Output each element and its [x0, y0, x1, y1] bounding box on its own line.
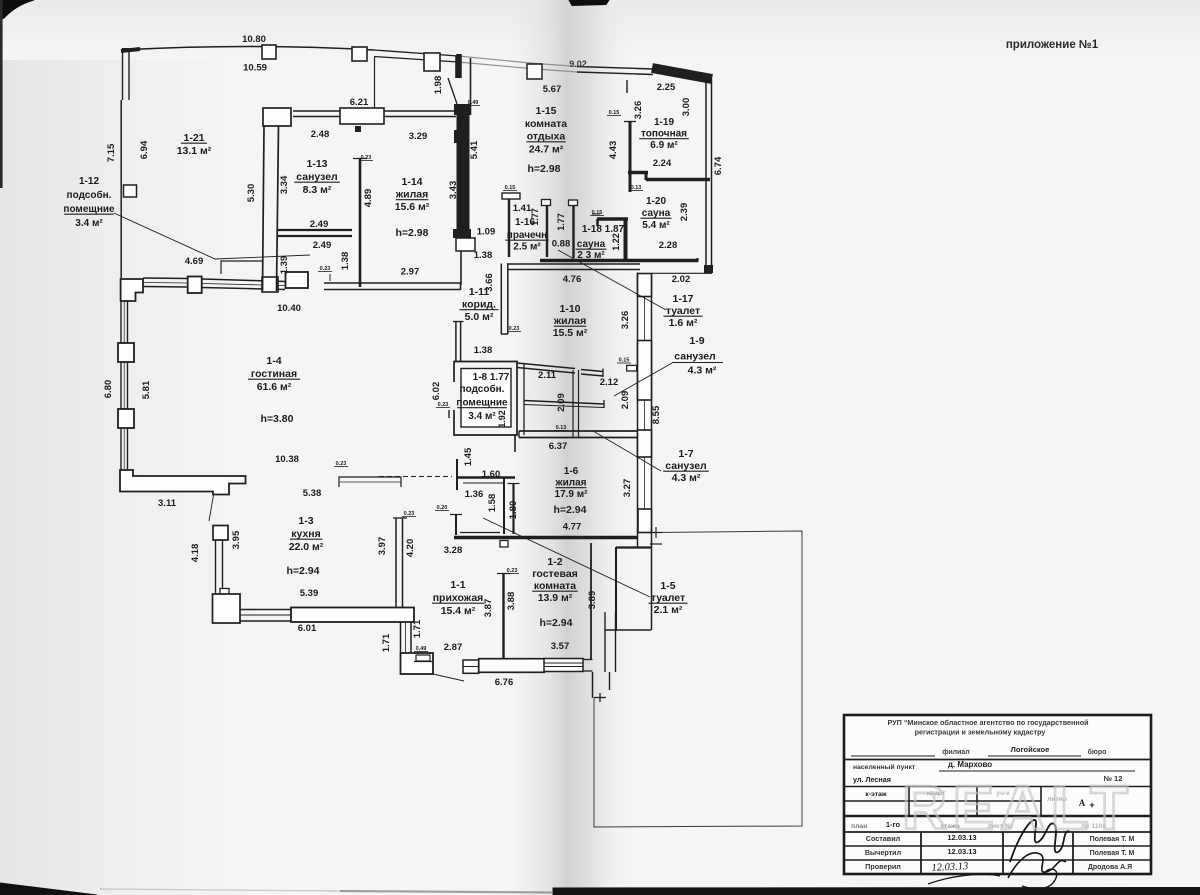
step corner down	[697, 258, 699, 262]
svg-text:3.4 м²: 3.4 м²	[75, 218, 103, 229]
outer wall: north (top-left, curved)	[121, 49, 140, 51]
svg-text:1-12: 1-12	[79, 176, 99, 187]
wall: 1-20/1-18 divider region ticks	[592, 213, 600, 215]
svg-text:2.87: 2.87	[444, 642, 463, 653]
svg-text:филиал: филиал	[942, 749, 970, 756]
svg-text:отдыха: отдыха	[527, 131, 566, 143]
wall: 1-5 west protrusion	[615, 547, 617, 630]
window E3	[638, 430, 652, 457]
wall 6.37 double	[519, 430, 637, 432]
svg-text:10.40: 10.40	[277, 303, 301, 314]
svg-text:туалет: туалет	[651, 592, 685, 604]
svg-text:1.6 м²: 1.6 м²	[669, 317, 698, 329]
wall 4.76 (top of 1-10) double	[507, 263, 640, 265]
svg-text:10.38: 10.38	[275, 454, 299, 465]
svg-text:план: план	[851, 823, 867, 830]
svg-text:4.76: 4.76	[563, 274, 582, 285]
wall: 1-19 south step	[628, 171, 648, 174]
svg-text:9.02: 9.02	[569, 59, 587, 69]
svg-text:1.92: 1.92	[497, 410, 507, 428]
wall: 1-19 west	[629, 121, 632, 192]
wall: 1-5 north	[616, 546, 651, 548]
svg-text:6.21: 6.21	[350, 97, 369, 108]
stamp rule 5	[844, 845, 1151, 847]
outer east wall lower double with windows	[638, 272, 652, 533]
svg-text:санузел: санузел	[674, 351, 715, 363]
svg-text:1.60: 1.60	[482, 469, 501, 480]
NW corner block of 1-4	[121, 279, 143, 301]
svg-text:13.9 м²: 13.9 м²	[538, 592, 573, 604]
svg-text:5.39: 5.39	[300, 588, 319, 599]
ledge wall 3.11 outline	[120, 470, 246, 495]
leader 1-12	[114, 213, 310, 259]
svg-text:1-9: 1-9	[689, 335, 704, 347]
window W2 on north wall	[352, 47, 367, 61]
book fold shadow band	[508, 0, 638, 895]
window W3 on north band	[527, 64, 542, 79]
svg-text:7.15: 7.15	[106, 143, 117, 162]
svg-text:1.45: 1.45	[463, 447, 474, 466]
svg-text:бюро: бюро	[1088, 748, 1107, 756]
porch block 1-1	[401, 653, 434, 674]
stub below 1-8	[514, 435, 516, 452]
svg-text:5.0 м²: 5.0 м²	[465, 311, 494, 323]
svg-text:4.43: 4.43	[608, 141, 619, 160]
white box 1-14 SE	[456, 238, 475, 251]
svg-text:2.48: 2.48	[311, 129, 330, 140]
window W5 north 1-4	[286, 272, 309, 288]
svg-text:1-18 1.87: 1-18 1.87	[582, 224, 625, 235]
leader 1-7	[593, 431, 661, 471]
svg-text:2.11: 2.11	[538, 370, 557, 381]
svg-text:0.88: 0.88	[552, 239, 571, 250]
svg-text:1-1: 1-1	[450, 579, 465, 591]
door leaf 1.98	[448, 78, 457, 104]
svg-text:13.1 м²: 13.1 м²	[177, 145, 212, 157]
stamp sig columns	[920, 832, 922, 874]
svg-text:8.3 м²: 8.3 м²	[303, 184, 332, 196]
block under door	[454, 104, 471, 115]
wall: 1-18 east	[624, 219, 628, 259]
svg-text:3.29: 3.29	[409, 131, 428, 142]
svg-text:12.03.13: 12.03.13	[931, 861, 968, 874]
svg-text:1.58: 1.58	[487, 494, 498, 513]
svg-text:1.80: 1.80	[508, 501, 519, 520]
svg-text:17.9 м²: 17.9 м²	[555, 489, 589, 500]
svg-text:REALT: REALT	[902, 774, 1134, 843]
wall 1.58	[503, 478, 505, 534]
svg-text:6.80: 6.80	[103, 380, 114, 399]
cap 0.23 1-8	[448, 410, 450, 418]
svg-text:2.49: 2.49	[313, 240, 332, 251]
svg-text:5.67: 5.67	[543, 84, 562, 95]
svg-text:1.38: 1.38	[474, 250, 493, 261]
svg-text:3.87: 3.87	[483, 599, 494, 618]
leader 1-5	[483, 518, 650, 597]
svg-text:1-6: 1-6	[564, 466, 579, 477]
window west kitchen 1	[213, 526, 228, 541]
svg-text:гостевая: гостевая	[532, 568, 578, 580]
svg-text:подсобн.: подсобн.	[67, 189, 112, 201]
svg-text:к-этаж: к-этаж	[865, 791, 886, 798]
svg-text:4.3 м²: 4.3 м²	[672, 472, 701, 484]
wall: 1-6 west upper (1.45)	[456, 459, 458, 490]
svg-text:5.38: 5.38	[303, 488, 322, 499]
tick on top band	[626, 80, 628, 93]
svg-text:комната: комната	[525, 118, 567, 130]
tick terrace top	[650, 532, 662, 534]
svg-text:3.97: 3.97	[377, 537, 388, 556]
svg-text:1.39: 1.39	[279, 256, 290, 275]
svg-text:населенный пункт: населенный пункт	[853, 763, 916, 771]
svg-text:1.09: 1.09	[477, 227, 496, 238]
window W7 west 1-4	[118, 343, 134, 362]
svg-text:4.77: 4.77	[563, 522, 582, 533]
svg-text:1.38: 1.38	[340, 252, 351, 271]
svg-text:6.01: 6.01	[298, 623, 317, 634]
svg-text:помещние: помещние	[63, 204, 115, 215]
band left edge line	[374, 57, 376, 110]
long wall under 1-13 (2.97) outlined	[324, 282, 460, 284]
svg-text:1-11: 1-11	[469, 286, 490, 298]
stamp rule 1	[844, 759, 1151, 761]
wall: 1-14 east lower thin	[460, 251, 462, 285]
svg-text:Логойское: Логойское	[1011, 745, 1050, 754]
svg-text:сауна: сауна	[577, 239, 606, 250]
svg-text:2.09: 2.09	[556, 393, 567, 412]
stamp rule 6	[844, 859, 1151, 861]
wall: 1-14 east channel top	[455, 56, 457, 78]
svg-text:12.03.13: 12.03.13	[947, 847, 976, 856]
fold-side double wall	[572, 370, 574, 438]
svg-text:15.6 м²: 15.6 м²	[395, 201, 430, 213]
block 1-14 SE	[453, 229, 471, 238]
svg-text:1-8 1.77: 1-8 1.77	[473, 372, 510, 383]
dashed line kitchen	[379, 476, 452, 478]
svg-text:5.41: 5.41	[469, 140, 480, 159]
svg-text:подсобн.: подсобн.	[460, 383, 505, 395]
room 1-8 outer wall outline	[454, 362, 517, 436]
svg-text:1-4: 1-4	[266, 355, 281, 367]
SE double wall down	[604, 612, 606, 672]
svg-text:ул. Лесная: ул. Лесная	[853, 775, 891, 784]
junction box top of 1-13 west wall	[263, 108, 291, 126]
walls down to terrace	[592, 672, 594, 698]
window E1	[638, 274, 652, 297]
svg-text:кухня: кухня	[291, 528, 321, 540]
svg-text:h=2.98: h=2.98	[528, 163, 561, 175]
wall east of 1-8	[523, 364, 525, 435]
window E4	[638, 509, 652, 533]
leader 1-17	[558, 250, 666, 310]
svg-text:3.34: 3.34	[279, 175, 290, 194]
wall: prачечн west (1-16)	[508, 199, 511, 257]
svg-text:2.28: 2.28	[659, 240, 678, 251]
svg-text:10.59: 10.59	[243, 63, 267, 74]
svg-text:5.81: 5.81	[141, 380, 152, 399]
svg-text:приложение №1: приложение №1	[1006, 39, 1099, 51]
porch outline 4.69	[221, 261, 262, 274]
svg-text:2.25: 2.25	[657, 82, 676, 93]
svg-text:8.55: 8.55	[651, 405, 662, 424]
svg-text:3.57: 3.57	[551, 641, 570, 652]
svg-text:жилая: жилая	[555, 478, 587, 489]
svg-text:туалет: туалет	[666, 305, 700, 317]
svg-text:прачечн: прачечн	[507, 230, 547, 241]
svg-text:д. Мархово: д. Мархово	[948, 760, 992, 769]
wall: 1-13/1-14 divider	[359, 158, 362, 287]
svg-text:1.71: 1.71	[381, 633, 392, 652]
west wall of 1-4 with windows	[120, 301, 122, 344]
window band south kitchen	[240, 609, 291, 611]
wall: 1-10 south double	[517, 363, 575, 369]
svg-text:3.43: 3.43	[448, 181, 459, 200]
svg-text:гостиная: гостиная	[251, 368, 297, 380]
leader 1-9	[614, 363, 672, 396]
wall: 1-13/1-14 north double	[293, 110, 340, 112]
wall: 1-13 south double	[277, 229, 352, 231]
svg-text:1-7: 1-7	[678, 448, 693, 460]
wall: 1-2 east (3.89)	[590, 543, 592, 659]
svg-text:1-19: 1-19	[654, 117, 674, 128]
top-left black corner	[0, 0, 34, 20]
svg-text:h=2.98: h=2.98	[396, 227, 429, 239]
wall: 1-5 east	[651, 528, 653, 630]
signature scrawl	[1010, 820, 1070, 862]
svg-text:5.4 м²: 5.4 м²	[642, 220, 670, 231]
ledge line 2.02	[652, 272, 712, 274]
wall stub 0.20	[455, 514, 457, 535]
svg-text:топочная: топочная	[641, 129, 687, 140]
svg-text:3.4 м²: 3.4 м²	[468, 411, 496, 422]
svg-text:61.6 м²: 61.6 м²	[257, 381, 292, 393]
wall: 1-18 north	[597, 217, 628, 221]
svg-text:h=2.94: h=2.94	[287, 565, 320, 577]
stamp cells row	[908, 787, 910, 817]
wall: 1-14 east black	[457, 115, 470, 230]
stamp filial row	[851, 755, 935, 757]
svg-text:1-14: 1-14	[401, 176, 422, 188]
svg-text:h=2.94: h=2.94	[540, 617, 573, 629]
west wall of kitchen	[215, 540, 217, 594]
svg-text:1-2: 1-2	[547, 556, 562, 568]
window W2b on north band	[424, 53, 440, 71]
svg-text:4.89: 4.89	[363, 189, 374, 208]
svg-text:1-15: 1-15	[535, 105, 556, 117]
svg-text:санузел: санузел	[665, 460, 706, 472]
svg-text:5.30: 5.30	[246, 184, 257, 203]
wall: 1-14/1-15 divider top bar	[456, 54, 462, 78]
svg-text:1-3: 1-3	[298, 515, 313, 527]
room 1-8 inner wall outline	[461, 369, 511, 428]
SW corner kitchen white block	[220, 589, 229, 595]
wall: partition 1.77 b / 1-18 west	[572, 206, 574, 258]
porch column 1.71	[400, 622, 402, 652]
stamp rule 2	[844, 786, 1151, 788]
svg-text:регистрации и земельному кадас: регистрации и земельному кадастру	[915, 728, 1046, 737]
wall: 1-5 south	[605, 629, 651, 631]
south wall outlined bar	[479, 659, 545, 673]
window W8 west 1-4	[118, 409, 134, 428]
svg-text:прихожая: прихожая	[433, 592, 484, 604]
top-center black blob	[569, 0, 609, 6]
svg-text:сауна: сауна	[642, 208, 671, 219]
window S2 channel	[544, 659, 583, 672]
svg-text:6.94: 6.94	[139, 140, 150, 159]
svg-text:4.69: 4.69	[185, 256, 204, 267]
svg-text:1.98: 1.98	[433, 76, 444, 95]
svg-text:6.74: 6.74	[713, 156, 724, 175]
svg-text:2.02: 2.02	[672, 274, 691, 285]
svg-text:2.5 м²: 2.5 м²	[513, 242, 541, 253]
sauna block south wall	[540, 259, 698, 263]
stamp table box	[844, 715, 1151, 889]
svg-text:комната: комната	[534, 580, 576, 592]
outer wall: west upper (1-21)	[122, 49, 124, 100]
svg-text:1-17: 1-17	[672, 293, 693, 305]
closet partition 2.11/2.12	[524, 401, 604, 405]
svg-text:Составил: Составил	[866, 834, 901, 843]
svg-text:1-5: 1-5	[660, 580, 675, 592]
radiator stub east	[627, 365, 637, 371]
svg-text:помещние: помещние	[456, 398, 508, 409]
svg-text:РУП “Минское областное агентст: РУП “Минское областное агентство по госу…	[887, 718, 1088, 727]
svg-text:1.36: 1.36	[465, 489, 484, 500]
svg-text:Проверил: Проверил	[865, 862, 901, 871]
svg-text:10.80: 10.80	[242, 34, 266, 45]
svg-text:6.02: 6.02	[431, 382, 442, 401]
window W4 north 1-4	[188, 277, 202, 294]
cap white 1-16	[502, 193, 520, 199]
north wall of 1-4 window band	[143, 277, 188, 280]
svg-text:3.89: 3.89	[587, 591, 598, 610]
svg-text:корид.: корид.	[462, 299, 496, 311]
svg-text:6.76: 6.76	[495, 677, 514, 688]
outer wall: top right thick slanted	[652, 68, 712, 79]
bottom gray streak	[340, 891, 553, 893]
svg-text:3.11: 3.11	[158, 498, 177, 509]
svg-text:2.12: 2.12	[600, 377, 619, 388]
svg-text:1-21: 1-21	[183, 132, 204, 144]
stamp rule 3	[844, 815, 1151, 817]
outer wall: east upper double	[705, 79, 707, 273]
notch on 1-14 east	[454, 130, 467, 143]
svg-text:Полевая Т. М: Полевая Т. М	[1090, 850, 1135, 857]
junction block bottom of 1-13 west wall	[262, 277, 278, 292]
wall 3.28/1-6 south	[454, 536, 638, 539]
wall: 1-10 west (3.66) double	[500, 264, 502, 335]
svg-text:3.27: 3.27	[622, 479, 633, 498]
svg-text:15.5 м²: 15.5 м²	[553, 327, 588, 339]
svg-text:3.26: 3.26	[620, 311, 631, 330]
svg-text:1.77: 1.77	[556, 213, 566, 231]
svg-text:1-13: 1-13	[306, 158, 327, 170]
wall: partition 1.77 a	[546, 203, 548, 257]
svg-text:1-20: 1-20	[646, 196, 666, 207]
svg-text:15.4 м²: 15.4 м²	[441, 605, 476, 617]
svg-text:3.00: 3.00	[681, 98, 692, 117]
wall: 1-13 west outlined	[263, 126, 265, 291]
svg-text:22.0 м²: 22.0 м²	[289, 541, 324, 553]
window on west wall upper	[124, 185, 137, 197]
svg-text:1.38: 1.38	[474, 345, 493, 356]
svg-text:4.3 м²: 4.3 м²	[688, 365, 717, 377]
svg-text:жилая: жилая	[395, 189, 429, 201]
svg-text:жилая: жилая	[553, 315, 587, 327]
svg-text:6.9 м²: 6.9 м²	[650, 140, 678, 151]
svg-text:Дродова А.Я: Дродова А.Я	[1088, 864, 1132, 871]
svg-text:1-16: 1-16	[515, 217, 535, 228]
svg-text:1-го: 1-го	[886, 820, 901, 829]
svg-text:санузел: санузел	[296, 171, 337, 183]
svg-text:2 3 м²: 2 3 м²	[577, 250, 605, 261]
svg-text:4.20: 4.20	[405, 539, 416, 558]
svg-text:2.97: 2.97	[401, 267, 420, 278]
wall: corridor west double	[455, 322, 457, 362]
wall 1.60	[458, 476, 515, 479]
svg-text:h=3.80: h=3.80	[261, 413, 294, 425]
svg-text:3.26: 3.26	[633, 101, 644, 120]
svg-text:2.39: 2.39	[679, 203, 690, 222]
wall: 1-2 west (3.88)	[502, 573, 504, 659]
bottom-left black wedge	[0, 883, 97, 895]
kitchen counter	[339, 477, 401, 487]
ledge pointer	[209, 495, 214, 521]
window top of 1-13/1-14 wall	[340, 108, 384, 124]
north band double line	[374, 50, 458, 56]
south wall kitchen outlined bar	[291, 608, 414, 623]
svg-text:3.95: 3.95	[231, 530, 242, 549]
terrace outline	[594, 531, 802, 827]
svg-text:h=2.94: h=2.94	[554, 504, 587, 516]
svg-text:1-10: 1-10	[559, 303, 580, 315]
svg-text:1.71: 1.71	[412, 619, 423, 638]
left edge dark line	[0, 0, 3, 188]
svg-text:2.24: 2.24	[653, 158, 672, 169]
bottom black bar	[553, 888, 1200, 895]
svg-text:1.22: 1.22	[611, 233, 621, 251]
wall 1.80	[512, 483, 514, 534]
svg-text:2.09: 2.09	[620, 391, 631, 410]
window W1 on north wall	[262, 45, 276, 59]
svg-text:6.37: 6.37	[549, 441, 568, 452]
svg-text:3.88: 3.88	[506, 592, 517, 611]
wall: 1-3/1-1 divider double	[395, 518, 397, 608]
svg-text:3.28: 3.28	[444, 545, 463, 556]
porch pointer	[433, 674, 464, 681]
svg-text:2.1 м²: 2.1 м²	[654, 604, 683, 616]
tick terrace corner	[594, 697, 606, 699]
south wall 1-1 left block	[463, 660, 479, 673]
svg-text:2.49: 2.49	[310, 219, 329, 230]
svg-text:24.7 м²: 24.7 м²	[529, 143, 564, 155]
stamp rule 4	[844, 831, 1151, 833]
svg-text:Вычертил: Вычертил	[865, 848, 902, 857]
window E2	[638, 341, 652, 401]
svg-text:4.18: 4.18	[190, 544, 201, 563]
